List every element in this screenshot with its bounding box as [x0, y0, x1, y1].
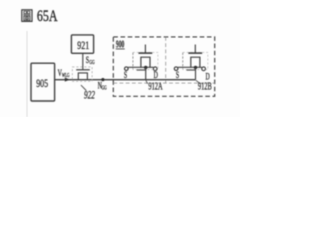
- svg-text:S: S: [86, 54, 89, 65]
- transistor 912B channel: [191, 57, 200, 67]
- transistor 912B dashed outline: [183, 52, 208, 69]
- leader 912B: [196, 80, 201, 84]
- arrow on wire: [65, 78, 70, 82]
- wire V_WLG from 905 to N_GG and bus to transistors: [55, 79, 196, 81]
- scan crease line: [26, 31, 28, 117]
- terminal S circle A: [125, 67, 129, 71]
- back-gate drop B: [195, 68, 197, 80]
- transistor 922 gate bar: [76, 69, 90, 71]
- svg-text:WLG: WLG: [62, 73, 70, 79]
- transistor 912A gate lead: [144, 45, 146, 54]
- block 921: [71, 35, 93, 53]
- back-gate drop A: [145, 68, 147, 80]
- transistor 912B gate bar: [188, 52, 202, 54]
- leader 922: [81, 85, 86, 90]
- node N_GG dot: [101, 78, 104, 81]
- transistor 912A source-drain wire: [128, 66, 153, 68]
- transistor 912B gate lead: [194, 45, 196, 54]
- svg-text:GG: GG: [102, 86, 107, 92]
- svg-text:905: 905: [36, 78, 48, 91]
- transistor 912B source-drain wire: [178, 66, 202, 68]
- svg-text:GG: GG: [89, 60, 95, 66]
- back-gate node dot B: [194, 66, 197, 69]
- cell divider dashed: [165, 37, 167, 83]
- figure title glyph 圖: [22, 10, 32, 22]
- back-gate bar A: [137, 69, 147, 71]
- svg-text:922: 922: [84, 89, 95, 102]
- svg-text:921: 921: [77, 39, 89, 52]
- block 900 dashed box: [113, 37, 214, 96]
- terminal S circle B: [174, 67, 178, 71]
- cell bottom dashed line: [113, 82, 214, 84]
- svg-text:S: S: [124, 70, 127, 81]
- transistor 922 dashed outline: [72, 67, 92, 81]
- transistor 912A dashed outline: [133, 52, 158, 69]
- terminal D circle B: [202, 67, 206, 71]
- leader 912A: [146, 80, 148, 84]
- svg-text:S: S: [176, 70, 179, 81]
- transistor 922 channel: [78, 73, 87, 80]
- back-gate bar B: [186, 69, 196, 71]
- back-gate node dot A: [144, 66, 147, 69]
- block 905: [31, 63, 55, 101]
- svg-text:912B: 912B: [198, 80, 212, 92]
- transistor 912A gate bar: [138, 52, 152, 54]
- transistor 922 gate lead (S_GG): [82, 53, 84, 69]
- terminal D circle A: [153, 67, 157, 71]
- svg-text:65A: 65A: [37, 7, 58, 25]
- svg-text:912A: 912A: [148, 80, 163, 92]
- transistor 912A channel: [141, 57, 150, 67]
